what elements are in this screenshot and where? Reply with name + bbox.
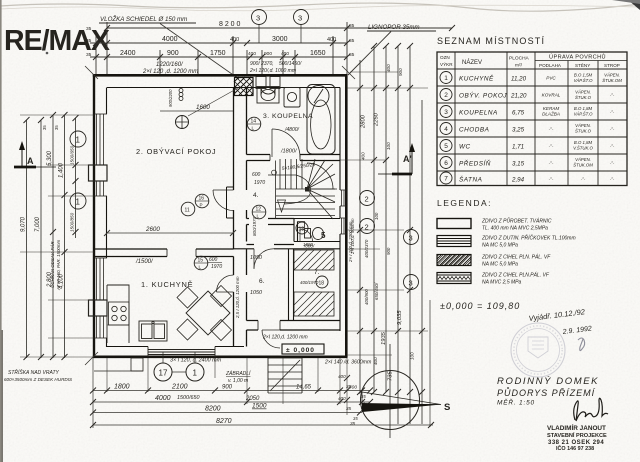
signature — [574, 398, 608, 421]
legend swatch 4 (cihla zigzag) — [437, 273, 471, 284]
svg-text:ŠATNA: ŠATNA — [459, 175, 482, 184]
svg-text:735: 735 — [388, 371, 394, 381]
canopy over gates (bottom-left) — [94, 358, 143, 371]
svg-text:NA MC 5,0 MPa: NA MC 5,0 MPa — [482, 262, 518, 268]
svg-text:3: 3 — [256, 14, 260, 23]
svg-text:100: 100 — [410, 352, 415, 360]
svg-text:ZDIVO Z PŮROBET. TVÁRNIC: ZDIVO Z PŮROBET. TVÁRNIC — [481, 217, 552, 225]
svg-text:3: 3 — [298, 14, 302, 23]
svg-text:RODINNÝ DOMEK: RODINNÝ DOMEK — [497, 376, 599, 387]
extension lines — [95, 36, 97, 76]
svg-text:35: 35 — [349, 38, 355, 44]
svg-text:900: 900 — [222, 385, 233, 391]
svg-text:2250: 2250 — [374, 112, 380, 127]
svg-text:2,5 I 120,d. 1200 mm: 2,5 I 120,d. 1200 mm — [235, 276, 240, 319]
svg-text:35: 35 — [86, 52, 92, 58]
hall north wall (rooms 6,7) — [234, 245, 341, 249]
kitchen stove (4 rings) — [109, 302, 130, 325]
circled 1 (left chain, lower) — [70, 193, 86, 209]
svg-text:5: 5 — [444, 143, 448, 150]
svg-text:ATYP 150, PAR. 1500mm: ATYP 150, PAR. 1500mm — [56, 239, 61, 291]
svg-text:400: 400 — [230, 37, 239, 43]
svg-text:V.ŠTUK.O: V.ŠTUK.O — [573, 146, 593, 151]
svg-text:14,65: 14,65 — [296, 385, 312, 391]
scan corner mark top-right — [628, 0, 640, 10]
door arc living room — [213, 190, 234, 211]
svg-text:2,94: 2,94 — [511, 177, 525, 184]
svg-text:-"-: -"- — [610, 93, 615, 98]
svg-text:6: 6 — [444, 160, 448, 167]
bottom wall outer — [93, 355, 348, 358]
svg-text:1970: 1970 — [211, 264, 222, 270]
svg-text:PVC: PVC — [546, 76, 556, 81]
svg-text:3: 3 — [409, 234, 413, 243]
bottom labels — [114, 384, 366, 426]
svg-text:OZN: OZN — [440, 55, 450, 60]
legend swatch 3 (cihla crosshatch) — [437, 255, 471, 266]
svg-text:8200: 8200 — [205, 406, 221, 413]
svg-text:L: L — [252, 126, 255, 131]
svg-text:35: 35 — [346, 406, 352, 411]
svg-text:ZÁBRADLÍ: ZÁBRADLÍ — [225, 370, 252, 377]
svg-text:3,25: 3,25 — [512, 127, 525, 134]
svg-text:7.: 7. — [314, 269, 320, 276]
legend swatch 1 (porobeton) — [437, 219, 471, 229]
svg-text:1,400: 1,400 — [59, 162, 65, 178]
pin circle 13 wc — [296, 222, 308, 234]
svg-text:1500: 1500 — [252, 403, 267, 410]
door arc bathroom — [272, 129, 300, 157]
svg-text:1500/650: 1500/650 — [70, 145, 75, 165]
svg-text:ZDIVO Z CIHEL PLN. PÁL. VF: ZDIVO Z CIHEL PLN. PÁL. VF — [481, 254, 551, 261]
svg-text:DLAŽBA: DLAŽBA — [542, 110, 560, 117]
door arc wc — [300, 229, 313, 242]
svg-text:900: 900 — [167, 50, 179, 57]
vertical extensions down — [92, 358, 94, 428]
dim line 4000/400/3000/400 — [90, 42, 347, 44]
table strop column — [602, 73, 622, 182]
svg-text:RE/MAX: RE/MAX — [4, 25, 110, 57]
svg-text:2. OBÝVACÍ POKOJ: 2. OBÝVACÍ POKOJ — [136, 147, 216, 156]
svg-text:15: 15 — [198, 258, 204, 264]
svg-text:500/1450/: 500/1450/ — [279, 61, 302, 67]
svg-text:600: 600 — [209, 257, 218, 263]
svg-text:900/2200: 900/2200 — [168, 89, 173, 107]
svg-text:14: 14 — [251, 119, 257, 125]
svg-text:MĚŘ. 1:50: MĚŘ. 1:50 — [497, 398, 535, 407]
right wall window lines — [340, 190, 346, 234]
pin circle 15 kitchen — [194, 256, 208, 270]
svg-text:35: 35 — [86, 26, 92, 32]
svg-text:VÁPEN.: VÁPEN. — [604, 73, 620, 78]
top dimension chain block — [90, 22, 452, 76]
svg-text:600×3500mm Z DESEK HURDIS: 600×3500mm Z DESEK HURDIS — [4, 377, 73, 382]
svg-text:STROP: STROP — [604, 63, 620, 68]
svg-text:35: 35 — [346, 384, 352, 389]
circled position 3 (top, twice) — [252, 10, 309, 44]
svg-text:2: 2 — [365, 195, 369, 204]
right wall inner — [339, 88, 341, 332]
svg-text:2: 2 — [365, 223, 369, 232]
svg-text:ŠTUK.OM: ŠTUK.OM — [602, 78, 622, 83]
svg-text:A: A — [27, 156, 34, 166]
svg-text:3000: 3000 — [272, 36, 288, 43]
svg-text:VÁPEN.: VÁPEN. — [575, 157, 591, 162]
pin circle 16 living — [195, 194, 209, 208]
svg-text:-"-: -"- — [581, 177, 586, 182]
note VLOZKA SCHIEDEL — [99, 15, 239, 79]
svg-text:9,035: 9,035 — [397, 310, 403, 325]
circled 3 (right chain, upper) — [404, 230, 419, 245]
svg-text:2: 2 — [444, 92, 448, 99]
svg-text:400: 400 — [281, 51, 289, 57]
svg-text:16: 16 — [199, 196, 205, 202]
svg-text:800/1970: 800/1970 — [252, 216, 257, 236]
svg-text:ŠTUK.OM: ŠTUK.OM — [573, 163, 593, 168]
svg-text:-"-: -"- — [610, 144, 615, 149]
svg-text:P: P — [200, 203, 203, 208]
svg-text:35: 35 — [42, 125, 47, 130]
svg-text:ÚPRAVA POVRCHŮ: ÚPRAVA POVRCHŮ — [549, 54, 606, 61]
svg-text:3,15: 3,15 — [512, 161, 525, 168]
svg-text:400: 400 — [338, 374, 346, 379]
section mark A' (right) — [378, 150, 412, 174]
svg-text:SEZNAM MÍSTNOSTÍ: SEZNAM MÍSTNOSTÍ — [437, 36, 545, 46]
svg-text:1600: 1600 — [196, 104, 210, 111]
exterior entry steps — [268, 358, 302, 393]
svg-text:PODLAHA: PODLAHA — [539, 63, 562, 68]
svg-text:VLADIMÍR JANOUT: VLADIMÍR JANOUT — [547, 423, 606, 432]
dim 1600 living + flue leader — [160, 88, 238, 116]
svg-text:2×I 120/,d. 1000 mm: 2×I 120/,d. 1000 mm — [249, 68, 296, 74]
scan top edge crease — [0, 3, 640, 11]
living room east wall recess — [227, 187, 234, 218]
bottom ticks — [90, 388, 434, 429]
svg-text:3: 3 — [444, 109, 448, 116]
left wall inner (gaps at windows) — [106, 88, 108, 348]
svg-text:LEGENDA:: LEGENDA: — [437, 198, 492, 208]
svg-text:WC: WC — [459, 144, 471, 151]
svg-text:1050: 1050 — [250, 290, 262, 296]
top dim labels — [86, 21, 336, 58]
top wall outer — [93, 74, 348, 77]
svg-text:L: L — [199, 265, 202, 270]
svg-text:B.O 1,8M: B.O 1,8M — [574, 106, 593, 111]
svg-text:VLOŽKA SCHIEDEL Ø 150 mm: VLOŽKA SCHIEDEL Ø 150 mm — [100, 15, 187, 23]
svg-text:-"-: -"- — [610, 177, 615, 182]
svg-text:100: 100 — [374, 212, 379, 220]
right side handwritten fractions — [350, 212, 391, 305]
pin circle 14 bathroom — [247, 117, 261, 131]
window sill box kitchen — [89, 300, 108, 316]
svg-text:11: 11 — [185, 208, 190, 214]
svg-text:1,71: 1,71 — [512, 144, 524, 151]
svg-text:-"-: -"- — [610, 110, 615, 115]
svg-text:OBÝV. POKOJ: OBÝV. POKOJ — [459, 91, 507, 100]
svg-text:-"-: -"- — [549, 161, 554, 166]
svg-text:1800: 1800 — [114, 384, 130, 391]
svg-text:17: 17 — [159, 369, 168, 378]
circled 1 (bottom) — [172, 352, 204, 381]
svg-text:ZDIVO Z DUTIN. PŘÍČKOVEK TL.10: ZDIVO Z DUTIN. PŘÍČKOVEK TL.100mm — [481, 234, 576, 242]
svg-text:9,070: 9,070 — [21, 216, 27, 232]
top wall inner — [107, 87, 340, 89]
I-beam lintels by chimney — [256, 77, 280, 96]
legend swatch 2 (dutin prickovky) — [437, 236, 471, 247]
svg-text:5: 5 — [321, 231, 326, 240]
svg-text:2×I 140 /d. 3600mm: 2×I 140 /d. 3600mm — [324, 360, 372, 366]
svg-text:1: 1 — [193, 369, 198, 378]
svg-text:VÁP.ŠT.O: VÁP.ŠT.O — [574, 78, 594, 83]
svg-text:PŘEDSÍŇ: PŘEDSÍŇ — [459, 159, 491, 168]
bottom wall inner — [107, 346, 245, 348]
table row circles — [440, 72, 452, 185]
svg-text:-"-: -"- — [610, 127, 615, 132]
circled 3 (right chain, lower) — [404, 275, 419, 290]
table steny column — [573, 73, 593, 182]
svg-text:VÁPEN.: VÁPEN. — [575, 90, 591, 95]
svg-text:IČO 146 97 238: IČO 146 97 238 — [556, 445, 594, 452]
note LIGNOPOR — [348, 24, 436, 75]
svg-text:4000: 4000 — [155, 395, 171, 402]
svg-text:-"-: -"- — [549, 127, 554, 132]
svg-text:/4800/: /4800/ — [284, 127, 300, 133]
circled 2 (right chain, lower) — [360, 219, 375, 234]
left chain ticks — [24, 112, 79, 360]
svg-text:LIGNOPOR 35mm: LIGNOPOR 35mm — [368, 24, 420, 31]
svg-text:11,20: 11,20 — [511, 76, 527, 83]
svg-text:OCHRAN ODSAV. PÁR: OCHRAN ODSAV. PÁR — [50, 241, 55, 288]
extension lines to plan — [20, 114, 94, 116]
pin circle 12 hall — [252, 205, 266, 219]
extension lines from plan right — [347, 87, 428, 89]
roof overhang corner dashes — [85, 66, 355, 365]
living/kitchen divider wall — [94, 249, 234, 257]
svg-text:8270: 8270 — [216, 418, 232, 425]
svg-text:2×I 120,d. 1200 mm: 2×I 120,d. 1200 mm — [262, 335, 308, 341]
right chain ticks — [357, 43, 425, 395]
svg-text:1970: 1970 — [254, 180, 265, 186]
dimension ticks top — [93, 25, 455, 60]
svg-text:STĚNY: STĚNY — [575, 61, 590, 68]
wc bowl — [298, 222, 324, 240]
bathroom washbasin — [257, 87, 279, 104]
south wall rooms 6/7 (porch north wall) — [247, 321, 341, 331]
svg-text:600: 600 — [252, 172, 261, 178]
svg-text:NA MC 5,0 MPa: NA MC 5,0 MPa — [482, 243, 518, 249]
svg-text:35: 35 — [349, 52, 355, 58]
small ticks near north — [344, 375, 350, 403]
svg-text:3: 3 — [409, 279, 413, 288]
left rotated labels — [21, 125, 75, 289]
svg-text:VÝKR: VÝKR — [440, 61, 453, 67]
wc walls — [294, 219, 340, 242]
svg-text:ZDIVO Z CIHEL PLN.PÁL. VF: ZDIVO Z CIHEL PLN.PÁL. VF — [481, 272, 550, 279]
svg-text:400: 400 — [338, 396, 346, 401]
svg-text:1. KUCHYNĚ: 1. KUCHYNĚ — [141, 280, 193, 289]
svg-text:1050: 1050 — [250, 255, 262, 261]
svg-text:± 0,000: ± 0,000 — [286, 347, 315, 354]
right wall outer — [345, 74, 348, 357]
closet room 7 (hatched) lower — [294, 292, 334, 316]
svg-text:VÁP.ŠT.O: VÁP.ŠT.O — [574, 112, 594, 117]
svg-text:1500/850: 1500/850 — [70, 212, 75, 232]
svg-text:TL. 400 mm NA MVC 2,5MPa: TL. 400 mm NA MVC 2,5MPa — [482, 226, 548, 232]
svg-text:4.: 4. — [253, 192, 259, 199]
pin circle 11 living — [181, 202, 195, 216]
level mark box porch — [282, 344, 324, 354]
svg-text:NÁZEV: NÁZEV — [462, 59, 482, 66]
svg-text:6,75: 6,75 — [512, 110, 525, 117]
svg-text:400: 400 — [373, 357, 378, 365]
svg-text:A': A' — [403, 154, 412, 164]
circled 1 (left chain, upper) — [70, 131, 86, 147]
svg-text:/1500/: /1500/ — [135, 259, 154, 265]
svg-text:KOVRAL: KOVRAL — [542, 93, 561, 98]
svg-text:-"-: -"- — [549, 177, 554, 182]
svg-text:B.O 1,8M: B.O 1,8M — [574, 140, 593, 145]
dim line 2400/900/1750 — [90, 56, 347, 58]
table names — [459, 74, 507, 184]
door arc kitchen — [217, 275, 234, 292]
svg-text:v. 1,00 m: v. 1,00 m — [228, 378, 248, 384]
vent stack circles top wall — [179, 89, 183, 101]
svg-text:±0,000 = 109,80: ±0,000 = 109,80 — [440, 301, 520, 311]
svg-text:2600: 2600 — [145, 226, 160, 233]
closet room 7 (hatched) upper — [294, 250, 334, 270]
svg-text:13: 13 — [299, 227, 305, 233]
spine wall (vertical, center) — [234, 88, 247, 347]
svg-text:m²/: m²/ — [515, 63, 523, 69]
svg-text:400/2370: 400/2370 — [364, 239, 369, 258]
svg-text:400: 400 — [361, 152, 366, 160]
kitchen table — [186, 291, 230, 335]
svg-text:VÁPEN.: VÁPEN. — [575, 123, 591, 128]
svg-text:KOUPELNA: KOUPELNA — [459, 110, 498, 117]
svg-text:1: 1 — [444, 75, 448, 82]
svg-text:ŠTUK.O: ŠTUK.O — [575, 95, 592, 100]
svg-text:6.: 6. — [259, 278, 265, 285]
boiler over tub — [308, 86, 329, 107]
svg-text:1500/650: 1500/650 — [177, 395, 199, 401]
bathtub — [307, 85, 335, 155]
chimney block (hatched) — [234, 77, 253, 96]
svg-text:STAVEBNÍ PROJEKCE: STAVEBNÍ PROJEKCE — [547, 431, 607, 439]
svg-text:7: 7 — [444, 176, 448, 183]
svg-text:900: 900 — [386, 247, 391, 255]
window left wall (kitchen) — [89, 258, 108, 338]
svg-text:8 2 0 0: 8 2 0 0 — [219, 21, 241, 28]
door arc porch entry — [262, 330, 280, 348]
table header texts — [440, 54, 620, 69]
svg-text:900: 900 — [264, 51, 272, 57]
svg-text:B.O 1,5M: B.O 1,5M — [574, 73, 593, 78]
svg-text:3. KOUPELNA: 3. KOUPELNA — [263, 113, 313, 120]
door arc hall to room 6 — [254, 249, 274, 269]
window bottom wall (kitchen) — [148, 347, 215, 358]
svg-text:-"-: -"- — [610, 161, 615, 166]
section mark A (left) — [14, 148, 56, 167]
svg-text:650/450/: 650/450/ — [374, 282, 379, 300]
table areas — [510, 76, 527, 184]
svg-text:2×I 100,d. 900mm: 2×I 100,d. 900mm — [350, 218, 355, 255]
svg-text:1800: 1800 — [303, 242, 313, 247]
stair walk line + arrow — [268, 170, 310, 212]
svg-text:1650: 1650 — [310, 50, 326, 57]
svg-text:/1800/: /1800/ — [280, 149, 298, 155]
svg-text:5,300: 5,300 — [47, 150, 53, 166]
svg-text:2400: 2400 — [120, 50, 136, 57]
svg-text:1: 1 — [76, 198, 81, 207]
divider rooms 6/7 — [289, 249, 294, 321]
svg-text:S: S — [444, 402, 450, 413]
svg-text:100: 100 — [386, 142, 391, 150]
kitchen counter — [107, 285, 129, 343]
svg-text:2100: 2100 — [171, 384, 188, 391]
svg-text:1750: 1750 — [210, 50, 226, 57]
svg-text:NA MVC 2,5 MPa: NA MVC 2,5 MPa — [482, 280, 521, 286]
staircase — [276, 159, 338, 219]
svg-text:400/900: 400/900 — [364, 289, 369, 305]
svg-text:400: 400 — [248, 51, 256, 57]
svg-text:1220/160/: 1220/160/ — [156, 62, 184, 68]
table podlaha column — [542, 76, 561, 182]
svg-text:ŠTUK.O: ŠTUK.O — [575, 129, 592, 134]
scan left edge line — [0, 0, 2, 462]
svg-text:KERAM: KERAM — [543, 106, 560, 111]
svg-text:12: 12 — [256, 207, 262, 213]
window left wall (living room) — [89, 114, 108, 196]
circled 2 (right chain, upper) — [360, 191, 375, 206]
pin circle 18 satna — [316, 276, 328, 288]
svg-text:STŘÍŠKA NAD VRATY: STŘÍŠKA NAD VRATY — [8, 368, 60, 376]
window sill box — [89, 165, 108, 181]
svg-text:400: 400 — [327, 37, 336, 43]
svg-text:1: 1 — [76, 136, 81, 145]
circled 17 (bottom) — [154, 352, 172, 381]
handwritten beam notes top — [142, 61, 302, 75]
svg-text:2800: 2800 — [361, 114, 367, 129]
svg-text:35: 35 — [350, 421, 356, 426]
svg-text:CHODBA: CHODBA — [459, 127, 489, 134]
svg-text:KUCHYNĚ: KUCHYNĚ — [459, 74, 494, 83]
stair south wall — [247, 219, 295, 225]
svg-text:7,000: 7,000 — [35, 216, 41, 232]
svg-text:35: 35 — [349, 23, 355, 29]
svg-text:900/ 2370,: 900/ 2370, — [250, 61, 274, 67]
svg-text:2050: 2050 — [245, 396, 260, 402]
kitchen sink (double basin) — [139, 321, 167, 341]
svg-text:35: 35 — [86, 38, 92, 44]
svg-text:35: 35 — [54, 125, 59, 130]
designer block — [547, 423, 607, 452]
left wall outer — [93, 74, 95, 358]
svg-text:1935: 1935 — [381, 331, 387, 345]
svg-text:4: 4 — [444, 126, 448, 133]
svg-text:18: 18 — [319, 281, 325, 287]
handwritten approval notes (pen) — [528, 307, 592, 336]
chairs (4 diamonds) — [177, 286, 232, 341]
svg-text:400: 400 — [386, 64, 391, 72]
dim line 8200 — [107, 27, 452, 29]
bathroom south wall — [247, 155, 341, 161]
svg-text:L: L — [257, 214, 260, 219]
svg-text:PLOCHA: PLOCHA — [509, 56, 530, 62]
svg-text:21,20: 21,20 — [510, 93, 527, 100]
north arrow — [361, 344, 420, 438]
bathroom washer — [284, 88, 300, 108]
dim 2600 living — [104, 230, 236, 236]
